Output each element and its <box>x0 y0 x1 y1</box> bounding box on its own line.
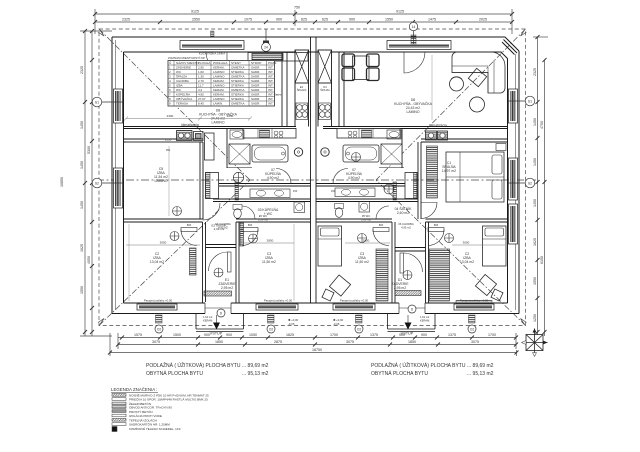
right wall inner face <box>507 59 509 304</box>
hall south wall left apt <box>213 198 311 200</box>
svg-text:6150: 6150 <box>540 256 544 264</box>
svg-text:Parapet podlahy +0,05: Parapet podlahy +0,05 <box>460 299 489 303</box>
svg-text:KERAM.: KERAM. <box>213 66 225 70</box>
roof hip BL <box>99 180 250 326</box>
svg-text:14,97 m2: 14,97 m2 <box>442 169 456 173</box>
air-conditioning unit right apt <box>426 131 437 140</box>
eaves outline dashed <box>99 29 526 326</box>
pantry walls below chimney left <box>294 83 296 127</box>
bath block east wall right apt <box>401 129 403 169</box>
svg-text:... 89,69 m2: ... 89,69 m2 <box>242 363 269 369</box>
chimney shaft left with X <box>295 50 309 83</box>
bottom wall window right apt bedroom 2 <box>333 304 375 310</box>
svg-text:18750: 18750 <box>312 348 322 352</box>
svg-text:9125: 9125 <box>191 10 199 14</box>
svg-text:750: 750 <box>294 5 300 9</box>
svg-text:POZN.: POZN. <box>268 61 277 65</box>
svg-text:1475: 1475 <box>428 18 436 22</box>
roof hip BR <box>376 180 526 326</box>
svg-text:S1: S1 <box>528 99 532 103</box>
shower left bath <box>229 144 250 164</box>
svg-text:INT.: INT. <box>268 102 274 106</box>
kitchen counter right apt <box>337 129 400 139</box>
axis circles left <box>92 97 123 188</box>
right wall window 3 <box>509 204 518 244</box>
svg-text:TERASA: TERASA <box>176 102 188 106</box>
svg-text:SADR.: SADR. <box>251 102 260 106</box>
svg-text:1,30: 1,30 <box>198 75 204 79</box>
svg-text:1450: 1450 <box>80 121 84 129</box>
svg-text:ZÁDVERIE: ZÁDVERIE <box>176 66 191 70</box>
svg-text:SADR.: SADR. <box>251 75 260 79</box>
svg-text:05 WC: 05 WC <box>362 214 370 218</box>
kitchen counter left apt <box>243 129 296 139</box>
svg-text:9125: 9125 <box>396 10 404 14</box>
door hall to bedroom right apt <box>421 203 437 219</box>
bedrooms north wall right apt <box>316 218 392 220</box>
svg-text:4,90: 4,90 <box>198 93 204 97</box>
living/day zone south wall right apt <box>323 126 508 128</box>
top dim end extensions <box>94 9 96 34</box>
water heater left <box>294 148 302 156</box>
right wall window 1 (living) <box>509 89 518 123</box>
svg-text:INT.: INT. <box>268 75 274 79</box>
svg-text:STIERKA: STIERKA <box>231 93 244 97</box>
light symbols <box>170 153 454 280</box>
svg-text:1450: 1450 <box>533 118 537 126</box>
svg-text:1550: 1550 <box>385 18 393 22</box>
svg-text:350: 350 <box>166 148 171 152</box>
svg-text:1375: 1375 <box>448 333 456 337</box>
wall pier at axis 14 <box>411 35 416 44</box>
svg-text:LAMINO: LAMINO <box>213 75 225 79</box>
door C3 left: panel and arc <box>242 228 258 232</box>
svg-text:-0,05: -0,05 <box>333 322 340 326</box>
svg-text:3075: 3075 <box>152 340 160 344</box>
svg-text:4,90 m2: 4,90 m2 <box>267 176 279 180</box>
top wall outer face <box>112 37 519 51</box>
axis / ridge line <box>96 179 536 181</box>
roof hip TL <box>99 29 250 180</box>
svg-text:SADR.: SADR. <box>251 93 260 97</box>
svg-text:LAMINO: LAMINO <box>155 179 168 183</box>
top dimension line 1 <box>95 13 512 15</box>
svg-text:1700: 1700 <box>488 333 496 337</box>
svg-text:13,04 m2: 13,04 m2 <box>460 260 474 264</box>
svg-text:SADR.: SADR. <box>251 84 260 88</box>
svg-text:3075: 3075 <box>346 340 354 344</box>
svg-text:06 CHODBA: 06 CHODBA <box>398 222 413 226</box>
svg-text:PROSTÝ BETÓN: PROSTÝ BETÓN <box>129 409 153 414</box>
WC left <box>233 205 242 210</box>
mat right entry <box>395 291 421 296</box>
svg-text:900: 900 <box>226 333 232 337</box>
svg-text:OBYTNÁ PLOCHA BYTU: OBYTNÁ PLOCHA BYTU <box>371 370 428 377</box>
svg-text:-0,05: -0,05 <box>288 322 295 326</box>
central party wall <box>310 37 312 303</box>
door C2 right: panel and arc <box>428 228 444 232</box>
mat left entry <box>204 291 232 296</box>
svg-text:2875: 2875 <box>274 340 282 344</box>
svg-text:Parapet podlahy +0,00: Parapet podlahy +0,00 <box>144 299 173 303</box>
hip arrowheads <box>98 30 104 36</box>
svg-text:1625: 1625 <box>533 238 537 246</box>
svg-text:1825: 1825 <box>286 333 294 337</box>
svg-text:SADR.: SADR. <box>251 70 260 74</box>
svg-text:1,60 m2: 1,60 m2 <box>361 218 371 222</box>
right wall outer face <box>518 51 520 314</box>
svg-text:OMIETKA: OMIETKA <box>231 88 245 92</box>
desk C3 right <box>329 275 350 296</box>
svg-text:O2: O2 <box>269 327 273 331</box>
svg-text:SADR.: SADR. <box>251 79 260 83</box>
svg-text:1450: 1450 <box>80 201 84 209</box>
svg-text:OMIETKA: OMIETKA <box>231 66 245 70</box>
svg-text:KERAM.: KERAM. <box>213 93 225 97</box>
svg-text:STENY: STENY <box>231 61 241 65</box>
svg-text:PODLAŽNÁ ( ÚŽITKOVÁ) PLOCHA BY: PODLAŽNÁ ( ÚŽITKOVÁ) PLOCHA BYTU <box>371 361 466 369</box>
izba east wall left apt <box>199 142 201 219</box>
svg-text:900: 900 <box>349 18 355 22</box>
svg-text:LAMINO: LAMINO <box>213 84 225 88</box>
bedroom divider wall 2 right apt <box>425 222 427 303</box>
svg-text:2,95: 2,95 <box>198 66 204 70</box>
svg-text:LAMINO: LAMINO <box>212 121 225 125</box>
svg-text:PODLAHA: PODLAHA <box>213 61 227 65</box>
top dimension line 2 <box>95 21 512 23</box>
svg-text:OMIETKA: OMIETKA <box>231 102 245 106</box>
top axis circle <box>262 29 271 52</box>
zadverie door left: panel and arc <box>228 252 232 272</box>
bottom wall outer face <box>112 313 519 315</box>
right wall window 2 (bedroom) <box>509 158 518 200</box>
svg-text:klimatizácia: klimatizácia <box>181 123 199 127</box>
zadverie door right: panel and arc <box>400 253 404 273</box>
pantry walls below chimney right <box>317 83 319 127</box>
svg-text:2,60 m2: 2,60 m2 <box>397 211 409 215</box>
svg-text:STIERKA: STIERKA <box>231 79 244 83</box>
door arc bath left <box>276 169 291 184</box>
svg-text:KUCHYNSKÁ LINKA: KUCHYNSKÁ LINKA <box>199 52 225 56</box>
svg-text:2,95 m2: 2,95 m2 <box>221 286 233 290</box>
living/day zone south wall left apt <box>124 126 297 128</box>
svg-text:1250: 1250 <box>533 314 537 322</box>
svg-text:150: 150 <box>293 189 298 193</box>
svg-text:1,62 m2: 1,62 m2 <box>420 315 430 319</box>
row lines <box>168 65 275 101</box>
svg-text:3,2: 3,2 <box>198 88 203 92</box>
svg-text:800: 800 <box>248 223 253 227</box>
svg-text:2325: 2325 <box>80 66 84 74</box>
washer right <box>359 202 370 213</box>
svg-text:2325: 2325 <box>533 68 537 76</box>
svg-text:KERAM.: KERAM. <box>213 79 225 83</box>
svg-text:2850: 2850 <box>267 239 274 243</box>
svg-text:INT.: INT. <box>268 66 274 70</box>
svg-text:INT.: INT. <box>268 70 274 74</box>
bedroom divider wall 2 left apt <box>235 222 237 303</box>
svg-text:STROP: STROP <box>251 61 261 65</box>
left wall outer face <box>111 37 113 314</box>
door arc bath right <box>333 169 348 184</box>
svg-text:... 89,69 m2: ... 89,69 m2 <box>467 363 494 369</box>
bottom marker circles <box>155 305 476 333</box>
wardrobe bars bottom right apt <box>376 249 388 301</box>
svg-text:INT.: INT. <box>268 84 274 88</box>
svg-text:LAMIN.: LAMIN. <box>213 102 223 106</box>
svg-text:WC: WC <box>176 88 182 92</box>
svg-text:VSTUP: VSTUP <box>210 332 223 336</box>
svg-text:625: 625 <box>322 18 328 22</box>
hall south wall right apt <box>316 198 418 200</box>
svg-text:OBYTNÁ PLOCHA BYTU: OBYTNÁ PLOCHA BYTU <box>146 370 203 377</box>
sofa L-shape right apt <box>452 52 505 93</box>
terrace door arc right apt <box>404 52 425 73</box>
shower right bath <box>381 144 402 164</box>
wall living room / shaft column left <box>281 52 283 127</box>
left wall window 1 <box>114 89 123 123</box>
svg-text:LAMINO: LAMINO <box>213 70 225 74</box>
svg-text:2,95 m2: 2,95 m2 <box>394 286 406 290</box>
svg-text:WC: WC <box>176 70 182 74</box>
entry opening left in bottom wall <box>205 302 231 315</box>
svg-text:O2: O2 <box>470 327 474 331</box>
svg-text:SADR.: SADR. <box>251 97 260 101</box>
left dimension lines <box>84 31 86 336</box>
svg-text:KERAM.: KERAM. <box>203 319 213 323</box>
entry arrow left <box>213 323 220 330</box>
svg-text:1550: 1550 <box>80 286 84 294</box>
svg-text:900: 900 <box>421 333 427 337</box>
svg-text:LEGENDA ZNAČENIA :: LEGENDA ZNAČENIA : <box>111 387 157 392</box>
wall pier small left <box>211 31 215 37</box>
air-conditioning unit left apt <box>177 131 193 141</box>
svg-text:1,60 m2: 1,60 m2 <box>258 218 268 222</box>
bedroom divider wall 1 right apt <box>391 222 393 303</box>
svg-text:Parapet podlahy +0,00: Parapet podlahy +0,00 <box>340 299 369 303</box>
svg-text:2300: 2300 <box>167 114 174 118</box>
svg-text:1450: 1450 <box>80 161 84 169</box>
svg-text:1550: 1550 <box>533 277 537 285</box>
svg-text:1,62 m2: 1,62 m2 <box>203 315 213 319</box>
svg-text:KÚPEĽŇA: KÚPEĽŇA <box>176 92 190 97</box>
WC right apartment wc room <box>335 204 344 209</box>
top wall window right apartment <box>387 41 451 50</box>
svg-text:klimatizácia: klimatizácia <box>429 124 447 128</box>
svg-text:3550: 3550 <box>165 138 172 142</box>
legend swatches and rows <box>112 393 209 432</box>
svg-text:150: 150 <box>331 189 336 193</box>
svg-text:STIERKA: STIERKA <box>231 70 244 74</box>
bedroom north wall right apt <box>421 138 508 140</box>
svg-text:SADR.: SADR. <box>251 66 260 70</box>
svg-text:1700: 1700 <box>330 333 338 337</box>
small basin right bath <box>387 130 401 139</box>
svg-text:27,97: 27,97 <box>198 97 206 101</box>
pantry stack circles right <box>319 103 331 120</box>
round chair 2 <box>470 97 485 112</box>
svg-text:LAMINO: LAMINO <box>407 110 420 114</box>
washbasin counter left <box>250 189 290 198</box>
door C3 right: panel and arc <box>373 228 389 232</box>
bottom wall inner face <box>124 302 508 304</box>
svg-text:LAMINO: LAMINO <box>213 97 225 101</box>
svg-text:11,50 m2: 11,50 m2 <box>355 260 369 264</box>
svg-text:1575: 1575 <box>134 333 142 337</box>
dining table right apt <box>353 56 370 80</box>
svg-text:4,95 m2: 4,95 m2 <box>401 226 411 230</box>
door leaf predsien right <box>393 182 397 200</box>
svg-text:SADR.: SADR. <box>251 88 260 92</box>
interior dimension lines <box>124 55 505 301</box>
coffee table rotated <box>468 68 486 86</box>
svg-text:3050: 3050 <box>160 241 167 245</box>
svg-text:14: 14 <box>412 25 416 29</box>
svg-text:2850: 2850 <box>363 239 370 243</box>
svg-text:4700: 4700 <box>540 121 544 129</box>
svg-text:E5 WC: E5 WC <box>259 214 268 218</box>
chamfer corner window lines <box>504 40 518 54</box>
compass rose <box>522 329 548 357</box>
svg-text:ZOZNAM MIESTNOSTÍ NP: ZOZNAM MIESTNOSTÍ NP <box>168 56 205 60</box>
wall living room / shaft column right <box>338 52 340 127</box>
wc room door arc right <box>376 206 389 219</box>
svg-text:3075: 3075 <box>471 340 479 344</box>
svg-text:INT.: INT. <box>268 79 274 83</box>
elevation marks <box>203 315 430 326</box>
radiator right C2 <box>456 301 492 304</box>
column lines <box>174 61 267 107</box>
svg-text:INT.+latex: INT.+latex <box>268 93 282 97</box>
desk C2 right <box>475 274 496 295</box>
nightstand right apt <box>496 144 506 151</box>
bathtub right <box>343 145 379 162</box>
left wall insulation line <box>115 40 117 310</box>
door leaf hall left <box>235 182 239 200</box>
svg-text:1625: 1625 <box>80 244 84 252</box>
svg-text:E6 CHODBA: E6 CHODBA <box>215 222 231 226</box>
svg-text:1450: 1450 <box>533 158 537 166</box>
entry arrow right <box>405 323 412 330</box>
svg-text:KOMÍNOVÉ TELESO SCHIEDEL, UNI: KOMÍNOVÉ TELESO SCHIEDEL, UNI <box>129 426 181 431</box>
svg-text:3050: 3050 <box>463 241 470 245</box>
dining chairs <box>342 54 355 67</box>
bottom wall window left apt bedroom 2 <box>256 304 298 310</box>
bottom wall french window left bedroom <box>137 304 177 310</box>
svg-text:1375: 1375 <box>370 333 378 337</box>
svg-text:INT.: INT. <box>268 97 274 101</box>
svg-text:OMIETKA: OMIETKA <box>231 75 245 79</box>
svg-text:O2: O2 <box>157 327 161 331</box>
bathtub left <box>252 145 288 162</box>
closet divider right apt <box>395 247 426 249</box>
svg-text:ŠPAJZA: ŠPAJZA <box>176 74 187 79</box>
bottom wall french window right bedroom <box>454 304 494 310</box>
tall closet left hall upper <box>205 133 215 160</box>
axis circles right <box>508 96 535 188</box>
terrace door arc left apt <box>206 52 227 73</box>
izba north wall left apt <box>124 138 204 140</box>
svg-text:800: 800 <box>187 223 192 227</box>
shower edge line left <box>227 167 252 169</box>
svg-text:800: 800 <box>434 223 439 227</box>
wall pier at axis 24 <box>263 41 269 50</box>
svg-text:CHODBA: CHODBA <box>176 79 189 83</box>
svg-text:2,70: 2,70 <box>198 79 204 83</box>
svg-text:1850: 1850 <box>215 340 223 344</box>
svg-text:Parapet podlahy +0,00: Parapet podlahy +0,00 <box>264 299 293 303</box>
svg-text:... 95,13 m2: ... 95,13 m2 <box>242 371 269 377</box>
left wall inner face <box>123 52 125 303</box>
bedrooms north wall left apt <box>124 218 203 220</box>
bedroom divider wall 1 left apt <box>202 222 204 303</box>
svg-text:625: 625 <box>301 18 307 22</box>
chimney shaft right with X <box>318 50 332 83</box>
right dimension lines <box>537 37 539 336</box>
svg-text:PLOCHA: PLOCHA <box>198 61 210 65</box>
kitchen upper cabinet strip left apt <box>248 53 308 62</box>
washbasin counter right <box>335 188 375 197</box>
svg-text:4,95 m2: 4,95 m2 <box>218 226 228 230</box>
svg-text:NÁZOV MIESTN.: NÁZOV MIESTN. <box>176 61 200 65</box>
svg-text:24: 24 <box>264 45 268 49</box>
roof hip TR <box>376 29 526 180</box>
svg-text:8,45: 8,45 <box>198 102 204 106</box>
svg-text:... 95,13 m2: ... 95,13 m2 <box>467 371 494 377</box>
svg-text:VSTUP: VSTUP <box>401 332 414 336</box>
bedroom west wall right apt <box>417 142 419 219</box>
dimension tick marks <box>83 12 547 355</box>
svg-text:4,90 m2: 4,90 m2 <box>348 176 360 180</box>
wardrobe bars bottom left apt <box>190 248 197 275</box>
svg-text:800: 800 <box>379 223 384 227</box>
svg-text:2025: 2025 <box>479 18 487 22</box>
svg-text:1850: 1850 <box>408 340 416 344</box>
single bed C3 right <box>318 226 342 266</box>
svg-text:1075: 1075 <box>244 18 252 22</box>
bath block west wall left apt <box>226 129 228 169</box>
svg-text:11,50 m2: 11,50 m2 <box>262 260 276 264</box>
door arc izba left <box>203 203 220 220</box>
pantry stack circles left <box>296 103 308 120</box>
wc room door arc left <box>242 206 255 219</box>
room list table <box>168 61 275 107</box>
entry opening right in bottom wall <box>399 302 425 315</box>
svg-text:PRIEČKA 10 ÚPOR. 10/MP4/48 RA: PRIEČKA 10 ÚPOR. 10/MP4/48 RASTLÁ MULTIG… <box>129 397 208 402</box>
svg-text:S2: S2 <box>528 181 532 185</box>
svg-text:1,60: 1,60 <box>198 70 204 74</box>
bottom dimension lines <box>118 337 516 339</box>
svg-text:Č.: Č. <box>169 60 172 65</box>
svg-text:O2: O2 <box>357 327 361 331</box>
svg-text:2325: 2325 <box>122 18 130 22</box>
water heater right <box>321 148 329 156</box>
svg-text:KERAM.: KERAM. <box>213 88 225 92</box>
washer left <box>294 202 305 213</box>
svg-text:5300: 5300 <box>87 146 91 154</box>
svg-text:INT.: INT. <box>268 88 274 92</box>
svg-text:900: 900 <box>276 18 282 22</box>
right wall insulation line <box>515 54 517 310</box>
bath lower wall left apt <box>219 183 311 185</box>
closet divider left apt <box>206 244 237 246</box>
shower edge line right <box>379 167 404 169</box>
double bed right apt <box>446 152 504 202</box>
svg-text:STIERKA: STIERKA <box>231 97 244 101</box>
svg-text:1050: 1050 <box>227 114 234 118</box>
svg-text:KERAM.: KERAM. <box>420 319 430 323</box>
round chair 1 <box>450 77 464 91</box>
